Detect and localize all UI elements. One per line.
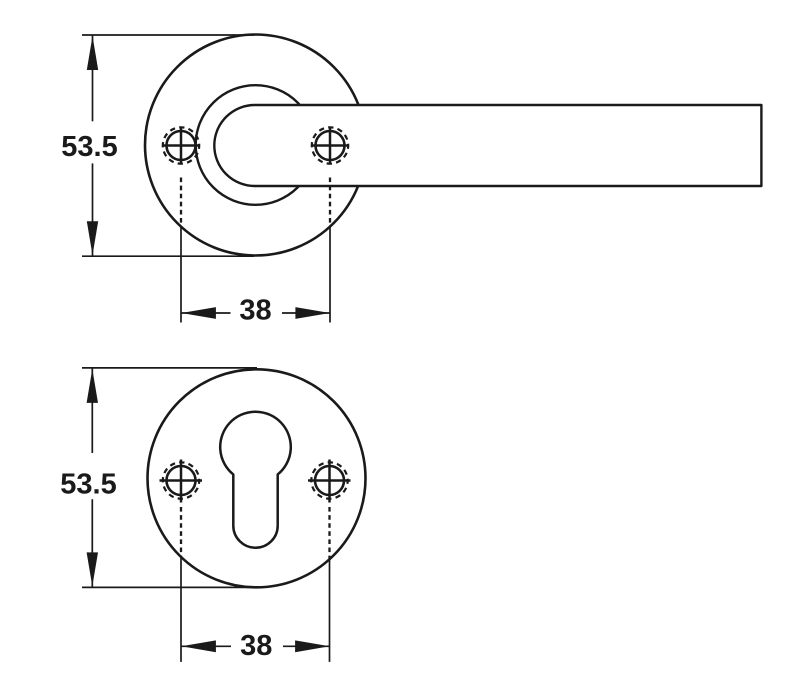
svg-text:38: 38 (240, 630, 272, 662)
svg-text:53.5: 53.5 (60, 469, 116, 501)
svg-text:38: 38 (239, 295, 271, 327)
svg-text:53.5: 53.5 (61, 131, 117, 163)
